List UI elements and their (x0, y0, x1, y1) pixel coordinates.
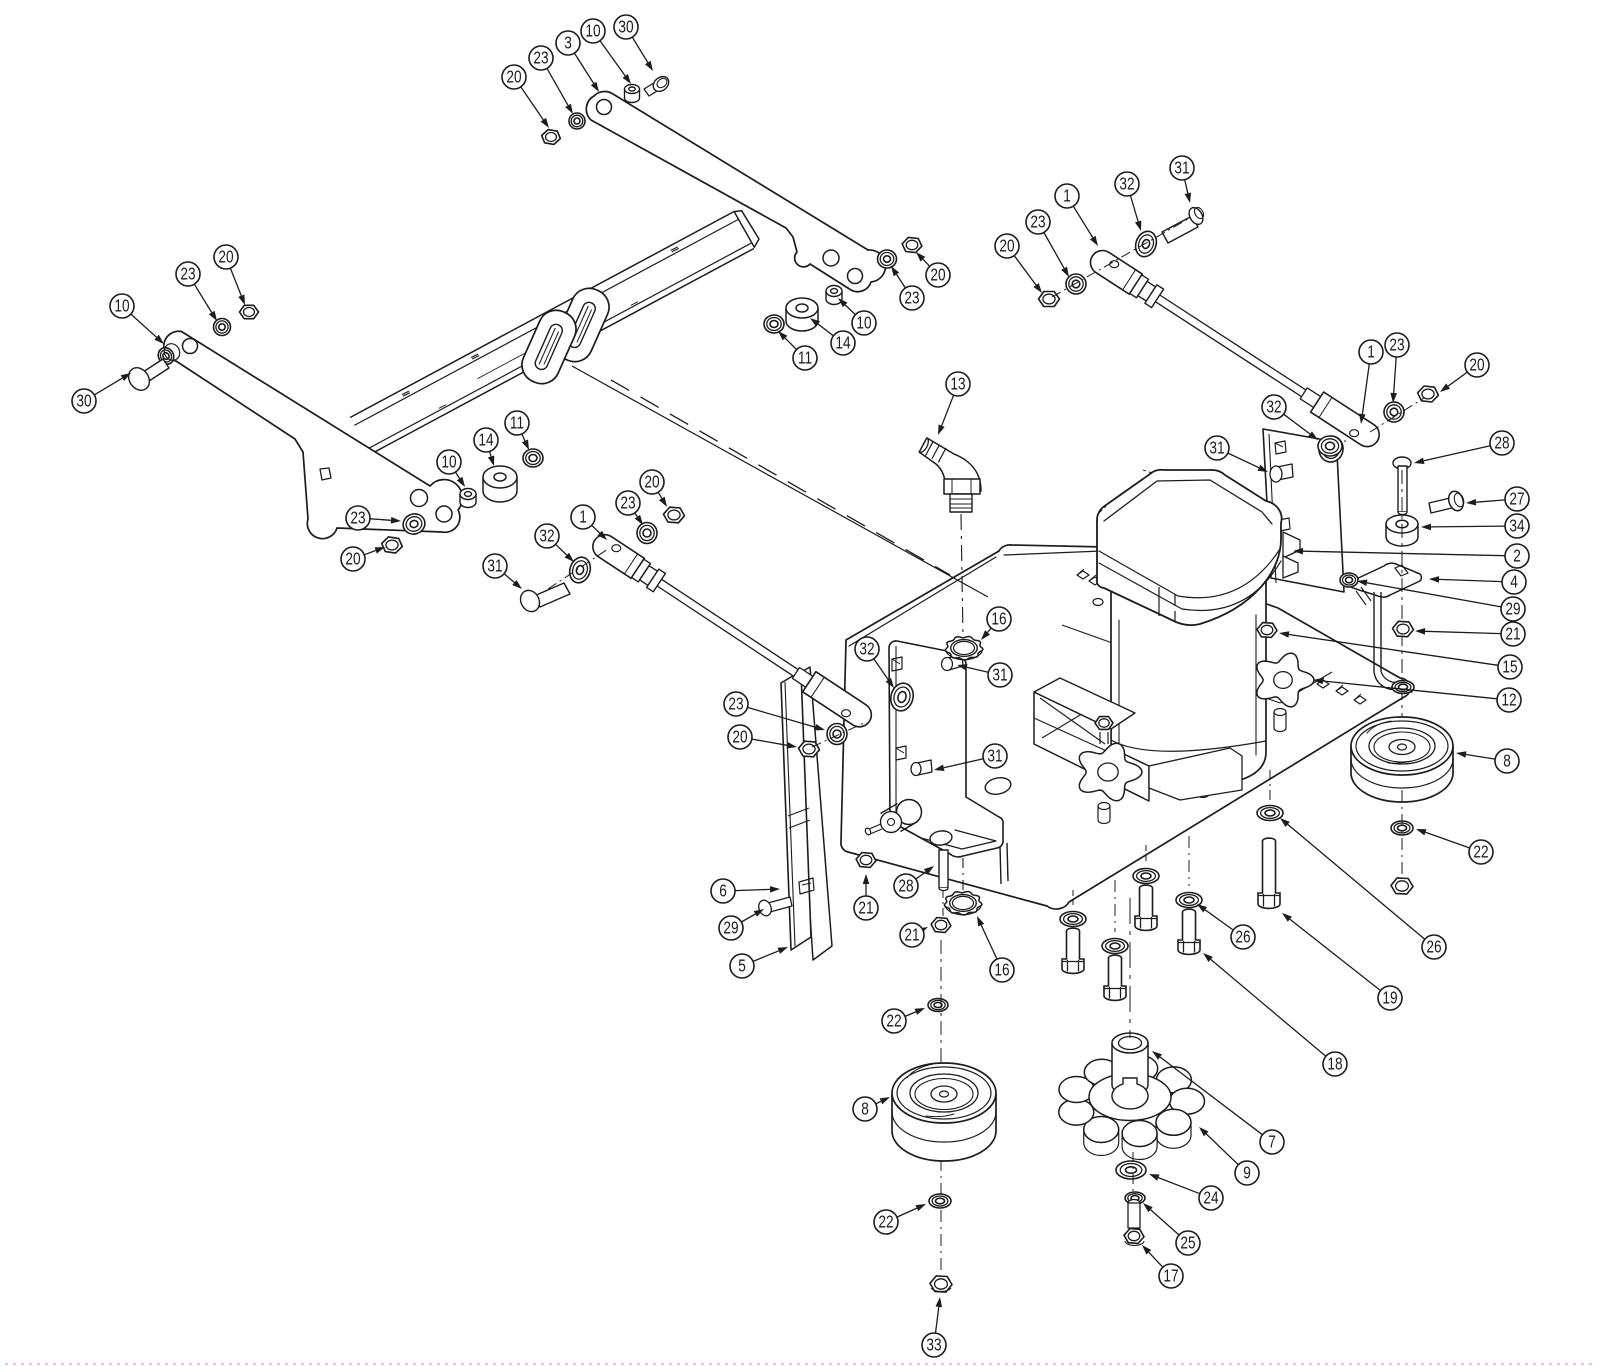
knob stem b (1274, 709, 1286, 732)
svg-text:19: 19 (1382, 989, 1397, 1008)
balloon 26 (1231, 925, 1255, 949)
svg-text:24: 24 (1203, 1189, 1218, 1208)
nut 20 left (240, 305, 259, 318)
bracket 4 (1350, 563, 1421, 692)
svg-text:29: 29 (1505, 600, 1520, 619)
svg-text:3: 3 (564, 34, 572, 53)
balloon 31 (483, 554, 507, 578)
svg-text:33: 33 (926, 1336, 941, 1355)
balloon 8 (1495, 749, 1519, 773)
motor body (1111, 560, 1266, 787)
balloon 34 (1505, 514, 1529, 538)
balloon 21 (854, 896, 878, 920)
balloon 27 (1505, 487, 1529, 511)
washer 22 a (928, 999, 948, 1012)
nut 21 b (931, 918, 951, 933)
washer 23 d (1066, 274, 1086, 294)
balloon 23 (529, 46, 553, 70)
svg-text:20: 20 (732, 728, 747, 747)
svg-text:22: 22 (878, 1213, 893, 1232)
svg-text:11: 11 (510, 414, 524, 433)
svg-text:31: 31 (1174, 159, 1189, 178)
svg-text:16: 16 (994, 961, 1009, 980)
nut 21 a (856, 853, 876, 868)
axis left pulley (940, 940, 942, 1272)
balloon 23 (900, 286, 924, 310)
balloon 20 (640, 470, 664, 494)
balloon 4 (1502, 570, 1526, 594)
balloon 6 (711, 879, 735, 903)
bolt 30 top (644, 74, 672, 96)
svg-text:31: 31 (992, 666, 1007, 685)
plate diamond slots (1077, 569, 1366, 733)
svg-text:20: 20 (1469, 356, 1484, 375)
nut 21 c (1393, 621, 1414, 636)
balloon 13 (946, 372, 970, 396)
balloon 16 (987, 607, 1011, 631)
balloon 21 (1501, 622, 1525, 646)
svg-text:23: 23 (904, 289, 919, 308)
washer+bolt B (1102, 939, 1128, 1001)
nut 20 c (664, 507, 685, 523)
balloon 22 (882, 1009, 906, 1033)
svg-text:18: 18 (1327, 1055, 1342, 1074)
balloon 23 (346, 506, 370, 530)
svg-text:23: 23 (180, 265, 195, 284)
balloon 26 (1422, 935, 1446, 959)
svg-text:20: 20 (644, 473, 659, 492)
pump lower block (1149, 748, 1242, 800)
spacer 14 b (786, 298, 818, 331)
balloon 3 (556, 31, 580, 55)
balloon 20 (502, 65, 526, 89)
svg-text:28: 28 (1494, 434, 1509, 453)
clevis pin 31 b (1162, 205, 1206, 243)
svg-text:31: 31 (487, 557, 502, 576)
bracket slots (892, 657, 906, 760)
slotted link 2 (516, 305, 582, 390)
svg-text:23: 23 (1030, 213, 1045, 232)
pulley 8 left (892, 1063, 996, 1161)
balloon 10 (852, 311, 876, 335)
svg-text:23: 23 (1389, 336, 1404, 355)
balloon 21 (900, 923, 924, 947)
balloon 9 (1235, 1161, 1259, 1185)
balloon 14 (831, 331, 855, 355)
bolt 31 d (942, 654, 964, 671)
svg-text:7: 7 (1268, 1133, 1276, 1152)
svg-text:27: 27 (1509, 490, 1524, 509)
nut 33 (930, 1276, 952, 1292)
svg-text:6: 6 (719, 882, 727, 901)
svg-text:1: 1 (1367, 343, 1375, 362)
balloon 30 (72, 389, 96, 413)
balloon 19 (1378, 986, 1402, 1010)
svg-text:20: 20 (506, 68, 521, 87)
slotted link 1 (549, 283, 615, 368)
washer 32 d (1318, 436, 1342, 456)
balloon 28 (894, 874, 918, 898)
peg 31 c (911, 760, 932, 776)
balloon 8 (853, 1097, 877, 1121)
svg-text:16: 16 (991, 610, 1006, 629)
washer 29 b (1340, 573, 1358, 587)
sprocket 9 (1059, 1056, 1205, 1160)
svg-text:23: 23 (728, 695, 743, 714)
washer 22 c (929, 1194, 951, 1208)
svg-text:20: 20 (345, 550, 360, 569)
svg-text:14: 14 (835, 334, 850, 353)
pump base (1034, 678, 1149, 801)
pin 28 b (1393, 457, 1411, 515)
svg-text:2: 2 (1513, 547, 1521, 566)
pump feet (1176, 760, 1209, 798)
washer 11 a (523, 449, 543, 467)
plate surface line (1062, 625, 1332, 703)
svg-text:20: 20 (999, 237, 1014, 256)
sprocket bore (1112, 1078, 1148, 1109)
axis 28a (942, 890, 944, 932)
balloon 1 (1055, 184, 1079, 208)
left bracket leg (963, 843, 1008, 896)
arm 3 (586, 92, 885, 292)
balloon 20 (926, 263, 950, 287)
balloon 11 (793, 346, 817, 370)
bushing 10 b (826, 286, 842, 305)
svg-text:30: 30 (76, 392, 91, 411)
svg-text:32: 32 (1119, 175, 1134, 194)
bushing 10 a (460, 489, 476, 508)
svg-text:31: 31 (1209, 439, 1224, 458)
balloon 24 (1199, 1186, 1223, 1210)
svg-text:10: 10 (856, 314, 871, 333)
svg-text:25: 25 (1180, 1234, 1195, 1253)
svg-text:32: 32 (539, 527, 554, 546)
svg-text:4: 4 (1510, 573, 1518, 592)
balloon 31 (1170, 156, 1194, 180)
svg-text:31: 31 (987, 747, 1002, 766)
balloon 29 (1501, 597, 1525, 621)
washer 32 e (1317, 434, 1345, 464)
rod 1 right (1091, 251, 1380, 447)
axis rod left pins (548, 549, 866, 747)
washer 23 top (569, 113, 585, 129)
svg-text:8: 8 (1503, 752, 1511, 771)
bolt E (1258, 838, 1280, 908)
main plate (841, 545, 1410, 909)
pin 28 a (939, 850, 948, 891)
svg-text:15: 15 (1502, 658, 1517, 677)
brackets 5 and 6 (781, 667, 832, 960)
svg-text:10: 10 (114, 297, 129, 316)
balloon 23 (1385, 333, 1409, 357)
washer+bolt C (1133, 869, 1159, 931)
washer+bolt A (1060, 912, 1086, 974)
right upright bracket (1263, 429, 1344, 592)
spacer 34 (1386, 515, 1418, 546)
balloon 33 (922, 1333, 946, 1357)
washer+bolt D (1176, 893, 1202, 955)
balloon 22 (874, 1210, 898, 1234)
bolt 30 left (124, 359, 169, 394)
svg-text:28: 28 (898, 877, 913, 896)
svg-text:29: 29 (723, 919, 738, 938)
balloon 31 (983, 744, 1007, 768)
balloon 10 (581, 19, 605, 43)
balloon 15 (1498, 655, 1522, 679)
plate hole small (1093, 599, 1103, 606)
svg-text:22: 22 (886, 1012, 901, 1031)
balloon 20 (214, 245, 238, 269)
star knob 12 a (1079, 743, 1142, 823)
balloon 20 (1465, 353, 1489, 377)
svg-text:12: 12 (1501, 691, 1516, 710)
washer 23 rod-left end (827, 724, 847, 745)
axis right pulley low (1401, 790, 1403, 876)
svg-text:8: 8 (861, 1100, 869, 1119)
svg-text:26: 26 (1235, 928, 1250, 947)
left pivot arm (164, 331, 463, 538)
lock ring 16 a (945, 637, 983, 661)
balloon 28 (1490, 431, 1514, 455)
washer 23 b (878, 250, 897, 268)
washer 11 b (764, 315, 784, 333)
alignment line dashed (611, 380, 950, 575)
spacer 14 a (483, 466, 517, 502)
svg-text:23: 23 (533, 49, 548, 68)
washer 22 b2 (1391, 821, 1413, 835)
axes bolts (1073, 770, 1270, 932)
rivet 29 a (757, 897, 792, 918)
svg-text:10: 10 (441, 453, 456, 472)
pulley 8 right (1351, 717, 1453, 802)
balloon 7 (1260, 1130, 1284, 1154)
balloon 31 (1205, 436, 1229, 460)
svg-text:13: 13 (950, 375, 965, 394)
svg-text:11: 11 (798, 349, 812, 368)
nut 15 (1257, 623, 1277, 638)
balloon 16 (990, 958, 1014, 982)
washer 24 (1116, 1161, 1146, 1179)
svg-text:26: 26 (1426, 938, 1441, 957)
washer 23 a (400, 511, 428, 537)
svg-text:21: 21 (1505, 625, 1520, 644)
elbow fitting 13 (919, 438, 981, 512)
bushing 10 left (155, 341, 182, 367)
svg-text:10: 10 (585, 22, 600, 41)
balloon 32 (1115, 172, 1139, 196)
axis sprocket (1130, 898, 1133, 1192)
balloon 5 (730, 954, 754, 978)
nut right pulley (1391, 878, 1413, 894)
balloon 10 (437, 450, 461, 474)
balloon 32 (535, 524, 559, 548)
bracket slots right (1275, 441, 1290, 531)
alignment line solid (572, 366, 988, 597)
balloon 31 (988, 663, 1012, 687)
balloon 18 (1323, 1052, 1347, 1076)
svg-text:20: 20 (218, 248, 233, 267)
svg-text:30: 30 (618, 18, 633, 37)
sprocket hub 7 (1112, 1033, 1148, 1095)
pivot boss (881, 800, 922, 833)
svg-text:32: 32 (859, 640, 874, 659)
star knob 12 b (1257, 653, 1314, 707)
nut 20 b (902, 237, 922, 252)
balloon 23 (724, 692, 748, 716)
svg-text:20: 20 (930, 266, 945, 285)
balloon 20 (995, 234, 1019, 258)
svg-text:9: 9 (1243, 1164, 1251, 1183)
balloon 25 (1176, 1231, 1200, 1255)
boss stem (864, 824, 882, 836)
balloon 1 (571, 505, 595, 529)
spacer 10 top (625, 85, 640, 103)
motor terminals (1283, 532, 1300, 578)
rod 1 left (593, 535, 872, 727)
balloon 14 (474, 428, 498, 452)
svg-text:23: 23 (620, 494, 635, 513)
balloon 20 (341, 547, 365, 571)
plate oval hole (984, 775, 1013, 796)
bolt 27 (1429, 489, 1466, 513)
svg-text:21: 21 (858, 899, 873, 918)
balloon 29 (719, 916, 743, 940)
washer 23 c (637, 523, 657, 544)
balloon 30 (614, 15, 638, 39)
balloon 23 (616, 491, 640, 515)
balloon 2 (1505, 544, 1529, 568)
peg 31 e (1270, 464, 1293, 482)
nut 20 top (542, 130, 561, 145)
svg-text:1: 1 (579, 508, 587, 527)
svg-text:17: 17 (1163, 1267, 1178, 1286)
washer E (1257, 806, 1283, 821)
svg-text:22: 22 (1473, 843, 1488, 862)
channel bar (350, 211, 759, 455)
balloon 22 (1469, 840, 1493, 864)
balloon 23 (176, 262, 200, 286)
nut 20 a (382, 537, 403, 553)
axis 28 b (1401, 470, 1403, 740)
nut 20 d (1039, 292, 1060, 307)
axis rod right (1338, 430, 1352, 452)
balloon 1 (1359, 340, 1383, 364)
clevis pin 31 a (517, 583, 570, 615)
svg-text:1: 1 (1063, 187, 1071, 206)
knob bolt a (1095, 717, 1113, 744)
washer 32 c (1132, 228, 1160, 259)
svg-text:32: 32 (1266, 398, 1281, 417)
nut 20 e (1418, 386, 1439, 402)
lock ring 16 b (944, 892, 982, 916)
motor cap (1097, 470, 1282, 625)
balloon 32 (1262, 395, 1286, 419)
svg-text:23: 23 (350, 509, 365, 528)
svg-text:34: 34 (1509, 517, 1524, 536)
balloon 10 (110, 294, 134, 318)
balloon 20 (728, 725, 752, 749)
balloon 12 (1497, 688, 1521, 712)
washer 23 left (214, 319, 231, 336)
balloon 32 (855, 637, 879, 661)
balloon 17 (1159, 1264, 1183, 1288)
svg-text:5: 5 (738, 957, 746, 976)
balloon 11 (505, 411, 529, 435)
washer 23 e (1384, 402, 1404, 422)
axis rod right pins (1052, 219, 1424, 432)
bottom pink dotted line (5, 1363, 1595, 1365)
washer 32 b (566, 555, 593, 586)
washer 25 (1125, 1192, 1145, 1204)
svg-text:21: 21 (904, 926, 919, 945)
left upright bracket (889, 641, 1003, 857)
elbow axis line (961, 514, 963, 637)
svg-text:14: 14 (478, 431, 493, 450)
balloon 23 (1026, 210, 1050, 234)
washer 12 a (1392, 681, 1414, 694)
nut 20 rod-left end (799, 741, 820, 757)
washer 32 a (888, 681, 916, 714)
bolt 17 (1124, 1200, 1144, 1246)
